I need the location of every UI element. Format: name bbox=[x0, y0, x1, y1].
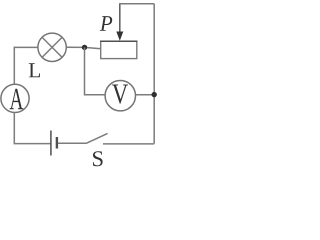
node junction dot at right rail bbox=[152, 92, 157, 97]
wire: battery to switch bbox=[58, 142, 86, 144]
ammeter A bbox=[1, 84, 29, 112]
label P bbox=[100, 16, 112, 31]
rheostat P (resistor box) bbox=[101, 41, 137, 58]
wire: top horizontal bbox=[119, 3, 154, 5]
wire: junction down then right to voltmeter bbox=[85, 47, 106, 94]
wire: left corner to lamp (top-left horizontal) bbox=[14, 46, 38, 48]
wire: switch right to bottom-right corner bbox=[103, 143, 154, 145]
battery cell bbox=[51, 131, 57, 156]
wire: lamp to rheostat (with junction) bbox=[66, 47, 101, 49]
wire: bottom left segment (corner to battery) bbox=[14, 143, 51, 145]
wire: right vertical bbox=[153, 4, 155, 144]
wire: left vertical (corner down to ammeter top) bbox=[13, 47, 15, 85]
switch S blade bbox=[86, 133, 108, 143]
lamp L bbox=[38, 33, 66, 61]
node junction dot at top bbox=[82, 45, 87, 50]
label S bbox=[93, 151, 103, 166]
voltmeter V bbox=[105, 81, 135, 111]
rheostat slider arrow bbox=[116, 4, 123, 41]
wire: voltmeter right to right rail bbox=[136, 94, 155, 96]
wire: ammeter bottom down to bottom-left corner bbox=[13, 113, 15, 144]
label L bbox=[29, 63, 40, 77]
